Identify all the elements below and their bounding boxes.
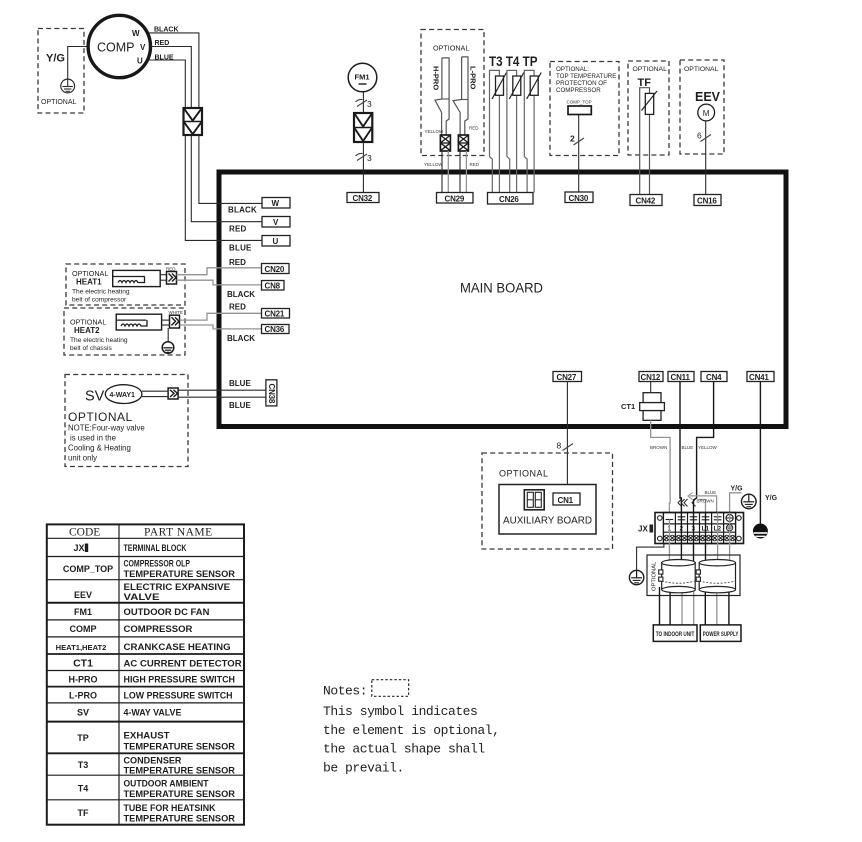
wire RED (V) xyxy=(151,47,262,222)
pin box CN27 xyxy=(553,372,582,382)
svg-text:4-WAY1: 4-WAY1 xyxy=(110,392,136,399)
svg-text:RED: RED xyxy=(470,162,480,167)
svg-text:CN36: CN36 xyxy=(265,325,285,334)
svg-text:CODE: CODE xyxy=(69,527,100,539)
optional box SV xyxy=(65,375,188,467)
svg-text:HEAT1,HEAT2: HEAT1,HEAT2 xyxy=(56,643,107,652)
svg-text:TEMPERATURE SENSOR: TEMPERATURE SENSOR xyxy=(124,789,236,799)
wire connector to CN32 xyxy=(362,142,364,193)
connector (H-PRO) xyxy=(440,135,450,151)
svg-text:HEAT2: HEAT2 xyxy=(74,326,100,335)
svg-text:COMP_TOP: COMP_TOP xyxy=(63,564,113,574)
wire block to chassis ground (left) xyxy=(637,544,664,571)
wire Y/G to COMP xyxy=(68,47,88,80)
svg-text:TF: TF xyxy=(78,808,89,818)
pin box CN36 xyxy=(262,325,290,334)
optional box (auxiliary) xyxy=(482,453,613,549)
svg-text:3: 3 xyxy=(367,99,372,109)
connector (L-PRO) xyxy=(458,135,468,151)
svg-text:HEAT1: HEAT1 xyxy=(76,278,102,287)
pin box CN42 xyxy=(630,195,662,206)
heater HEAT1 xyxy=(113,270,161,286)
svg-text:BLACK: BLACK xyxy=(228,206,257,215)
svg-text:CN4: CN4 xyxy=(706,373,722,382)
svg-text:Y/G: Y/G xyxy=(46,53,65,65)
svg-text:NOTE:Four-way valve: NOTE:Four-way valve xyxy=(68,424,145,433)
svg-text:BLACK: BLACK xyxy=(154,27,179,34)
wire HEAT2 connector to ground xyxy=(167,328,169,342)
svg-text:COMPRESSOR: COMPRESSOR xyxy=(556,87,601,94)
svg-text:EEV: EEV xyxy=(74,590,92,600)
svg-text:PART NAME: PART NAME xyxy=(144,527,213,539)
motor COMP xyxy=(88,15,150,77)
svg-text:COMPRESSOR: COMPRESSOR xyxy=(124,624,193,634)
pin box CN38 xyxy=(266,380,277,406)
connector (FM1 leads) xyxy=(354,113,372,142)
svg-text:Notes:: Notes: xyxy=(323,684,367,699)
wire HEAT2 to CN36 xyxy=(180,325,262,329)
svg-text:V: V xyxy=(140,43,146,52)
connector (SV) xyxy=(142,388,178,399)
svg-text:RED: RED xyxy=(229,258,246,267)
wire BLUE (U) xyxy=(148,60,262,240)
wire SV to CN38 (blue pair) xyxy=(178,389,266,391)
label box TO INDOOR UNIT xyxy=(653,625,697,642)
svg-text:This symbol indicates: This symbol indicates xyxy=(323,704,477,719)
svg-text:CRANKCASE HEATING: CRANKCASE HEATING xyxy=(124,642,231,652)
wire CN27 to CN1 xyxy=(566,382,568,494)
svg-text:CN26: CN26 xyxy=(499,195,519,204)
svg-text:AC CURRENT DETECTOR: AC CURRENT DETECTOR xyxy=(124,659,243,669)
svg-text:TEMPERATURE SENSOR: TEMPERATURE SENSOR xyxy=(124,765,236,775)
svg-text:SV: SV xyxy=(77,708,89,718)
svg-text:Y/G: Y/G xyxy=(731,486,744,493)
svg-text:T4: T4 xyxy=(78,784,89,794)
terminal labels 1 2 3 L1 L2 pe xyxy=(668,526,722,533)
terminal block JX1 xyxy=(638,513,744,544)
svg-text:U: U xyxy=(273,237,279,246)
svg-text:L-PRO: L-PRO xyxy=(469,66,478,89)
wire HEAT1 to CN20 xyxy=(177,268,262,275)
bus slash 2 xyxy=(574,138,585,145)
motor EEV xyxy=(698,104,715,121)
svg-text:JX: JX xyxy=(73,543,84,553)
svg-text:SV: SV xyxy=(85,389,105,405)
terminal clamps xyxy=(666,517,722,520)
pin box CN30 xyxy=(565,192,593,203)
svg-text:CN1: CN1 xyxy=(558,496,574,505)
wire Y/G from earth terminal to ground xyxy=(730,493,742,513)
pin box CN11 xyxy=(668,372,694,382)
svg-text:YELLOW: YELLOW xyxy=(698,445,718,450)
notes xyxy=(323,684,499,776)
svg-text:CN41: CN41 xyxy=(749,373,769,382)
thermistor T4 xyxy=(507,70,524,192)
svg-text:OPTIONAL: OPTIONAL xyxy=(652,561,658,591)
svg-text:OPTIONAL: OPTIONAL xyxy=(499,469,549,479)
svg-text:4-WAY VALVE: 4-WAY VALVE xyxy=(124,708,182,718)
svg-text:COMP: COMP xyxy=(97,41,135,55)
pin box W xyxy=(262,198,290,209)
svg-text:CN21: CN21 xyxy=(265,309,285,318)
svg-text:BLACK: BLACK xyxy=(227,334,255,343)
pressure switch H-PRO xyxy=(432,58,450,135)
ground (HEAT2) xyxy=(162,342,174,354)
optional box H-PRO/L-PRO xyxy=(421,30,484,156)
svg-text:CN38: CN38 xyxy=(267,384,276,404)
svg-text:PROTECTION OF: PROTECTION OF xyxy=(556,80,607,87)
optional box EEV xyxy=(680,60,724,154)
svg-text:COMPRESSOR OLP: COMPRESSOR OLP xyxy=(124,559,191,569)
svg-text:Y/G: Y/G xyxy=(765,495,778,502)
svg-text:HIGH PRESSURE SWITCH: HIGH PRESSURE SWITCH xyxy=(124,675,236,685)
wires cylinder 1 to indoor box xyxy=(659,587,661,625)
main board U1 xyxy=(219,172,786,427)
wire EEV to CN16 xyxy=(705,121,707,195)
ground (chassis, filled) xyxy=(753,524,768,539)
svg-text:CN29: CN29 xyxy=(445,194,465,203)
thermistor TP xyxy=(524,70,541,192)
svg-text:OPTIONAL:: OPTIONAL: xyxy=(556,66,589,73)
svg-text:CN42: CN42 xyxy=(636,197,656,206)
svg-text:BLUE: BLUE xyxy=(229,401,251,410)
wire HEAT2 to CN21 xyxy=(180,313,262,320)
valve coil SV (4-WAY1) xyxy=(105,385,142,404)
svg-text:BLUE: BLUE xyxy=(682,445,694,450)
wire CN41 to chassis ground xyxy=(759,382,761,524)
pin box CN4 xyxy=(701,372,727,382)
svg-text:The electric heating: The electric heating xyxy=(72,289,130,296)
svg-text:JX: JX xyxy=(638,525,648,534)
pin box CN20 xyxy=(262,264,290,274)
svg-text:W: W xyxy=(272,199,280,208)
svg-text:RED: RED xyxy=(229,303,246,312)
svg-text:CT1: CT1 xyxy=(621,402,635,411)
svg-text:TEMPERATURE SENSOR: TEMPERATURE SENSOR xyxy=(124,569,236,579)
terminal screws row xyxy=(664,535,736,541)
svg-text:COMP_TOP: COMP_TOP xyxy=(567,100,592,105)
svg-text:H-PRO: H-PRO xyxy=(69,675,98,685)
wire BLACK (W) xyxy=(149,33,263,204)
parts table xyxy=(47,524,244,824)
optional box Y/G xyxy=(38,29,84,114)
fan motor FM1 xyxy=(348,63,377,92)
table code column xyxy=(56,543,114,818)
display (7-seg) xyxy=(524,490,544,510)
svg-text:The electric heating: The electric heating xyxy=(70,337,128,344)
svg-text:OUTDOOR AMBIENT: OUTDOOR AMBIENT xyxy=(124,779,209,789)
svg-text:OPTIONAL: OPTIONAL xyxy=(433,44,469,53)
svg-text:BLUE: BLUE xyxy=(229,244,252,253)
svg-text:CONDENSER: CONDENSER xyxy=(124,756,182,766)
ground (Y/G optional) xyxy=(61,79,75,93)
thermistor T3 xyxy=(490,70,507,192)
svg-text:be prevail.: be prevail. xyxy=(323,761,404,776)
label box POWER SUPPLY xyxy=(700,625,741,642)
svg-text:unit only: unit only xyxy=(68,454,97,463)
heater HEAT2 xyxy=(116,314,161,330)
pin box CN41 xyxy=(747,372,774,382)
svg-text:OUTDOOR DC FAN: OUTDOOR DC FAN xyxy=(124,607,210,617)
svg-text:OPTIONAL: OPTIONAL xyxy=(68,410,133,424)
connector (HEAT1) xyxy=(160,267,176,284)
svg-text:CN32: CN32 xyxy=(353,194,373,203)
optional box TF xyxy=(628,61,669,155)
wire CN12 to CT1 xyxy=(650,382,652,393)
optional box HEAT1 xyxy=(66,264,185,305)
svg-text:TUBE FOR HEATSINK: TUBE FOR HEATSINK xyxy=(124,803,216,813)
bus slash 3 (lower) xyxy=(356,153,368,160)
terminal earth screw xyxy=(726,514,733,521)
svg-text:CN12: CN12 xyxy=(641,373,661,382)
pin box U xyxy=(262,236,290,247)
svg-text:V: V xyxy=(273,218,279,227)
connector (HEAT2) xyxy=(162,310,183,328)
wire CN4 (yellow) to terminal 3 xyxy=(694,382,714,513)
bus slash 8 xyxy=(563,444,574,451)
svg-text:OPTIONAL: OPTIONAL xyxy=(633,66,668,73)
auxiliary board xyxy=(499,485,596,535)
svg-text:BLUE: BLUE xyxy=(229,379,251,388)
svg-text:EXHAUST: EXHAUST xyxy=(124,731,171,741)
svg-text:YELLOW: YELLOW xyxy=(425,129,445,134)
crimp chevrons on wires xyxy=(678,499,685,506)
svg-text:AUXILIARY BOARD: AUXILIARY BOARD xyxy=(503,515,592,527)
pin box CN16 xyxy=(694,195,721,206)
svg-text:POWER SUPPLY: POWER SUPPLY xyxy=(703,631,739,638)
pin box CN1 xyxy=(553,493,580,505)
svg-text:RED: RED xyxy=(155,40,170,47)
wires cylinder 2 to power box xyxy=(704,587,706,625)
wire COMP_TOP to CN30 xyxy=(578,115,580,193)
wires L-PRO to CN29 xyxy=(459,151,461,193)
svg-text:CN27: CN27 xyxy=(557,373,577,382)
optional box COMP_TOP xyxy=(550,62,619,156)
table header xyxy=(69,527,213,539)
ground (cylinder side) xyxy=(629,570,643,584)
pin box CN8 xyxy=(262,281,285,291)
wire FM1 to connector xyxy=(362,92,364,113)
svg-text:BLUE: BLUE xyxy=(155,55,174,62)
svg-text:CN11: CN11 xyxy=(671,373,691,382)
wires through terminal block to cylinder 1 xyxy=(668,520,670,567)
svg-text:LOW PRESSURE SWITCH: LOW PRESSURE SWITCH xyxy=(124,691,233,701)
svg-text:W: W xyxy=(132,29,140,38)
svg-text:TEMPERATURE SENSOR: TEMPERATURE SENSOR xyxy=(124,742,236,752)
svg-text:CT1: CT1 xyxy=(73,658,93,670)
svg-text:CN8: CN8 xyxy=(265,281,281,290)
svg-text:the actual shape shall: the actual shape shall xyxy=(323,742,485,757)
svg-text:U: U xyxy=(137,57,143,66)
svg-text:OPTIONAL: OPTIONAL xyxy=(684,66,719,73)
optional box (filters) xyxy=(647,555,740,596)
svg-text:T3 T4 TP: T3 T4 TP xyxy=(489,54,538,69)
svg-text:6: 6 xyxy=(697,131,702,141)
thermistor TF xyxy=(640,88,657,195)
filter cylinder 2 xyxy=(696,560,735,593)
ground (terminal block Y/G) xyxy=(742,494,757,509)
svg-text:FM1: FM1 xyxy=(355,73,370,82)
svg-text:VALVE: VALVE xyxy=(124,592,160,602)
svg-text:TERMINAL BLOCK: TERMINAL BLOCK xyxy=(124,543,187,553)
svg-text:TO INDOOR UNIT: TO INDOOR UNIT xyxy=(656,631,695,638)
pressure switch L-PRO xyxy=(453,57,478,135)
jumper brown L1 xyxy=(699,500,706,513)
svg-text:T3: T3 xyxy=(78,760,89,770)
svg-text:TEMPERATURE SENSOR: TEMPERATURE SENSOR xyxy=(124,814,236,824)
svg-text:BROWN: BROWN xyxy=(697,499,714,504)
optional symbol sample xyxy=(372,680,409,697)
pin box CN12 xyxy=(639,372,663,382)
pin box CN32 xyxy=(347,193,379,203)
svg-text:3: 3 xyxy=(367,153,372,163)
pin box CN26 xyxy=(488,193,534,205)
svg-text:ELECTRIC EXPANSIVE: ELECTRIC EXPANSIVE xyxy=(124,582,231,592)
svg-text:CN20: CN20 xyxy=(265,265,285,274)
wire CT1 (brown) to terminal 1 xyxy=(651,420,670,512)
current transformer CT1 xyxy=(621,393,664,421)
svg-text:TOP TEMPERATURE: TOP TEMPERATURE xyxy=(556,73,616,80)
svg-text:BLUE: BLUE xyxy=(705,490,717,495)
sensor COMP_TOP xyxy=(567,100,592,115)
bus slash 3 (upper) xyxy=(356,99,368,106)
svg-text:BLACK: BLACK xyxy=(227,290,255,299)
pin box CN21 xyxy=(262,309,290,319)
wire HEAT1 to CN8 xyxy=(177,280,262,285)
optional box HEAT2 xyxy=(64,308,185,355)
svg-text:Cooling & Heating: Cooling & Heating xyxy=(68,444,131,453)
svg-text:MAIN BOARD: MAIN BOARD xyxy=(460,281,543,296)
wires through terminal block to cylinder 2 xyxy=(705,513,707,567)
svg-text:the element is optional,: the element is optional, xyxy=(323,723,499,738)
wire CN11 (blue) to terminal 2 xyxy=(680,382,681,513)
connector (COMP leads) xyxy=(184,108,203,135)
filter cylinder 1 xyxy=(659,560,696,593)
bus slash 6 xyxy=(701,135,712,142)
svg-text:belt of compressor: belt of compressor xyxy=(72,297,127,304)
svg-text:M: M xyxy=(703,109,710,118)
svg-text:8: 8 xyxy=(557,441,562,451)
pin box V xyxy=(262,217,290,228)
svg-text:is used in the: is used in the xyxy=(70,434,116,443)
svg-text:YELLOW: YELLOW xyxy=(424,162,444,167)
svg-text:COMP: COMP xyxy=(70,624,97,634)
svg-text:FM1: FM1 xyxy=(74,607,92,617)
svg-text:EEV: EEV xyxy=(695,90,721,104)
svg-text:CN16: CN16 xyxy=(697,197,717,206)
svg-text:OPTIONAL: OPTIONAL xyxy=(41,99,77,106)
svg-text:RED: RED xyxy=(469,126,479,131)
table part name column xyxy=(124,543,243,824)
jumper blue L2 xyxy=(690,496,717,513)
pin box CN29 xyxy=(437,193,474,204)
svg-text:2: 2 xyxy=(570,134,575,144)
svg-text:H-PRO: H-PRO xyxy=(432,66,441,90)
svg-text:BROWN: BROWN xyxy=(650,445,667,450)
svg-text:belt of chassis: belt of chassis xyxy=(70,345,112,352)
wires H-PRO to CN29 xyxy=(441,151,443,193)
svg-text:CN30: CN30 xyxy=(569,194,589,203)
svg-text:RED: RED xyxy=(229,225,247,234)
svg-text:L-PRO: L-PRO xyxy=(69,691,97,701)
svg-text:TP: TP xyxy=(77,733,89,743)
